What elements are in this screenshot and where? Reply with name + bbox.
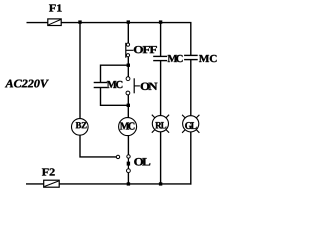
- buzzer BZ: [72, 119, 89, 136]
- node top control branch: [127, 20, 130, 23]
- label OFF: [134, 46, 157, 53]
- node top BZ branch: [78, 20, 81, 23]
- lamp RL: [152, 115, 169, 133]
- overload contact OL (changeover): [126, 155, 130, 173]
- wire OFF to node A: [127, 57, 129, 79]
- contact MC for RL (NO): [153, 56, 167, 60]
- coil MC: [119, 118, 137, 136]
- wire control drop to OFF: [127, 23, 129, 44]
- wire L1 feed: [27, 22, 49, 24]
- wire OL to bottom bus: [127, 173, 129, 184]
- wire holding branch lower: [101, 88, 129, 106]
- node A: [127, 64, 130, 67]
- node bottom RL branch: [159, 182, 162, 185]
- node B: [127, 104, 130, 107]
- label F2: [42, 168, 55, 175]
- wire BZ branch drop: [79, 23, 81, 119]
- label ON: [141, 83, 158, 90]
- label F1: [49, 4, 62, 11]
- label GL in circle: [185, 122, 196, 129]
- label MC contact GL: [199, 55, 217, 62]
- wire holding branch upper: [101, 65, 129, 82]
- label MC in circle: [120, 122, 134, 129]
- label OL: [134, 158, 150, 165]
- wire lamp GL to bottom bus: [190, 132, 192, 185]
- lamp GL: [182, 115, 199, 133]
- node bottom control branch: [127, 182, 130, 185]
- label MC holding contact: [107, 81, 123, 88]
- wire coil to OL: [127, 136, 129, 155]
- wire contact to lamp RL: [160, 61, 162, 116]
- pushbutton OFF (NC): [126, 43, 134, 58]
- wire lamp RL to bottom bus: [160, 132, 162, 184]
- label RL in circle: [155, 122, 166, 128]
- terminal OL left throw: [116, 155, 119, 158]
- wire ON to coil: [127, 95, 129, 118]
- wire L2 feed: [26, 183, 44, 185]
- fuse F1: [48, 19, 61, 26]
- contact MC for GL (NO): [184, 55, 198, 59]
- wire GL branch drop: [190, 22, 192, 55]
- wire RL branch drop: [160, 23, 162, 56]
- fuse F2: [44, 180, 60, 187]
- contact MC holding (NO): [94, 83, 108, 88]
- wire bottom bus: [59, 183, 191, 185]
- pushbutton ON (NO): [126, 77, 140, 95]
- label AC220V: [5, 80, 49, 88]
- wire contact to lamp GL: [190, 60, 192, 116]
- wire top bus: [61, 22, 191, 24]
- wire BZ to OL left throw: [80, 135, 116, 157]
- label BZ in circle: [76, 122, 87, 128]
- label MC contact RL: [168, 55, 183, 62]
- node top RL branch: [159, 20, 162, 23]
